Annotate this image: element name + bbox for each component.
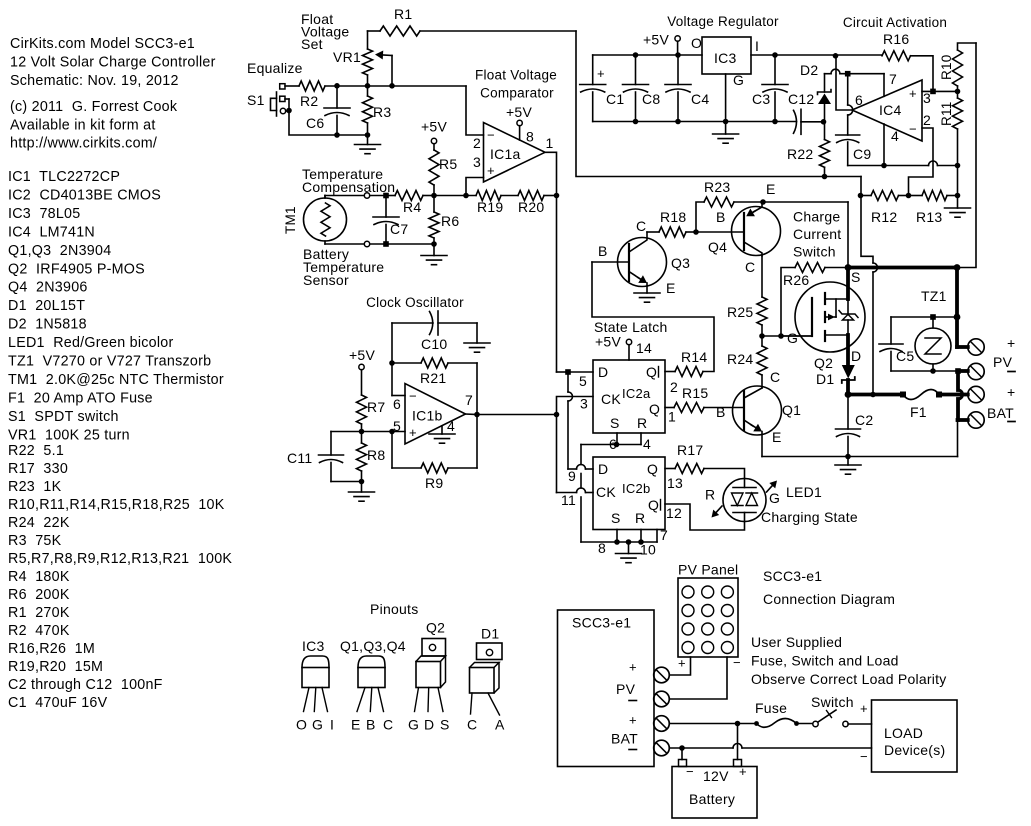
svg-text:C: C [745,259,755,275]
svg-text:IC2 CD4013BE CMOS: IC2 CD4013BE CMOS [8,187,161,203]
wire R14 to Q3 base [592,262,714,372]
12V battery [672,724,757,819]
svg-text:G: G [787,330,798,346]
svg-text:IC4 LM741N: IC4 LM741N [8,224,95,240]
svg-text:R9: R9 [425,475,443,491]
svg-text:R14: R14 [681,349,707,365]
pinout D1 TO-220 [467,626,505,733]
resistor R16 [882,31,933,91]
svg-text:D2: D2 [800,62,818,78]
fuse F1 [900,390,958,421]
svg-text:C: C [770,369,780,385]
svg-text:Fuse, Switch and Load: Fuse, Switch and Load [751,653,899,669]
ground under R6 [421,244,447,265]
terminal PV plus [968,335,1016,355]
svg-text:2: 2 [923,112,931,128]
svg-text:R17: R17 [677,442,703,458]
svg-text:Charging State: Charging State [761,509,858,525]
svg-text:S: S [851,269,861,285]
capacitor C8 [623,55,661,122]
svg-text:IC4: IC4 [879,102,902,118]
+5V pin 8 of IC1a [506,104,534,145]
wire panel plus lead [669,656,690,676]
svg-text:TM1 2.0K@25c NTC Thermistor: TM1 2.0K@25c NTC Thermistor [8,372,224,388]
wire Q-bar 12 to LED1 [665,504,745,530]
svg-text:C: C [383,717,393,733]
capacitor C4 [665,55,709,122]
svg-text:7: 7 [889,71,897,87]
svg-text:Device(s): Device(s) [884,742,945,758]
svg-text:+: + [597,66,605,81]
svg-text:12V: 12V [703,768,729,784]
svg-text:PV: PV [616,681,636,697]
svg-text:Fuse: Fuse [755,700,787,716]
regulator input line [751,52,882,58]
svg-text:6: 6 [393,396,401,412]
svg-text:Switch: Switch [793,244,836,260]
wire IC1a output [545,152,559,372]
svg-text:S: S [611,510,621,526]
svg-text:R19,R20 15M: R19,R20 15M [8,659,103,675]
svg-text:+: + [860,701,868,716]
svg-text:R11: R11 [939,101,954,126]
svg-text:C: C [636,218,646,234]
svg-text:+5V: +5V [595,334,621,350]
transzorb TZ1 [915,288,951,371]
wire BAT minus line [669,744,871,751]
svg-text:Float Voltage: Float Voltage [475,68,557,83]
svg-text:C2 through C12 100nF: C2 through C12 100nF [8,677,163,693]
op-amp IC4 [852,71,931,144]
svg-text:IC3: IC3 [714,50,737,66]
svg-text:C12: C12 [788,91,814,107]
svg-text:R20: R20 [518,199,544,215]
svg-text:TZ1 V7270 or V727 Transzorb: TZ1 V7270 or V727 Transzorb [8,354,211,370]
svg-text:+: + [678,656,686,671]
wire Q2 drain to D1 [846,335,850,365]
capacitor C11 [287,432,362,482]
LOAD box [860,700,957,772]
resistor R17 [665,442,704,474]
svg-text:R3: R3 [373,104,391,120]
svg-text:Q: Q [648,497,659,513]
resistor R2 [299,81,325,109]
terminal BAT minus conn [654,740,670,756]
svg-text:D: D [598,364,608,380]
svg-text:+: + [629,660,637,675]
resistor R4 [395,191,434,216]
+5V pin 14 of IC2a [595,334,632,361]
wire non-inverting input to temp node [463,178,483,199]
svg-text:F1 20 Amp ATO Fuse: F1 20 Amp ATO Fuse [8,390,153,406]
ground under Q3 [634,293,660,302]
svg-text:LED1 Red/Green bicolor: LED1 Red/Green bicolor [8,335,173,351]
svg-text:G: G [408,717,419,733]
svg-text:I: I [330,717,334,733]
svg-text:R: R [637,415,647,431]
svg-text:D2 1N5818: D2 1N5818 [8,317,87,333]
section label Circuit Activation [843,15,947,30]
svg-text:R4 180K: R4 180K [8,569,70,585]
svg-text:Q: Q [646,364,657,380]
svg-text:B: B [366,717,376,733]
label Battery Temperature Sensor [303,246,384,288]
svg-text:R1: R1 [394,6,412,22]
resistor R1 [368,6,577,36]
svg-text:A: A [495,717,505,733]
potentiometer VR1 [363,31,373,86]
resistor R19 [434,191,503,216]
svg-text:+: + [739,764,747,779]
svg-text:D: D [424,717,434,733]
resistor R22 [787,122,830,180]
diode D1 (20L15T) [816,365,855,395]
diode D2 (1N5818) [800,62,831,125]
svg-text:D1: D1 [816,371,834,387]
svg-text:IC2a: IC2a [622,386,651,401]
svg-text:4: 4 [643,436,651,452]
svg-text:IC3: IC3 [302,638,325,654]
resistor R24 [727,336,767,388]
svg-text:R24: R24 [727,351,753,367]
svg-text:S1: S1 [247,92,265,108]
svg-text:14: 14 [636,340,652,356]
svg-text:Q: Q [647,461,658,477]
svg-text:−: − [733,655,741,670]
capacitor C10 [392,311,477,352]
wire Q4 emitter to PV bus [763,202,848,268]
svg-text:Set: Set [301,36,323,52]
transistor Q1 [704,369,801,457]
wire S1 to ground rail [289,111,370,138]
svg-text:Charge: Charge [793,209,840,225]
wire BAT plus line [669,721,759,727]
svg-text:Sensor: Sensor [303,272,349,288]
svg-text:S: S [610,415,620,431]
svg-text:R10,R11,R14,R15,R18,R25 10K: R10,R11,R14,R15,R18,R25 10K [8,497,225,513]
wire non-inverting node [331,429,405,435]
resistor R12 [858,191,912,226]
svg-text:BAT: BAT [611,731,638,747]
terminal BAT plus conn [654,716,670,732]
label SCC3-e1 Connection Diagram [763,568,895,607]
section label Pinouts [370,601,418,617]
capacitor C1 [580,55,625,122]
svg-text:+: + [629,713,637,728]
wire TZ1 C5 top to PV plus [891,314,960,321]
svg-text:−: − [409,389,417,404]
wire Q2 source [846,268,850,300]
resistor R18 [647,209,699,237]
wire PV minus to BAT minus [958,371,963,420]
svg-text:E: E [351,717,361,733]
svg-text:R24 22K: R24 22K [8,515,70,531]
MOSFET Q2 [781,269,865,371]
svg-text:+: + [487,163,495,178]
svg-text:−: − [909,122,917,137]
svg-text:R6 200K: R6 200K [8,587,70,603]
svg-text:11: 11 [561,492,576,508]
svg-text:9: 9 [568,468,576,484]
svg-text:R18: R18 [660,209,686,225]
svg-text:2: 2 [670,379,678,395]
svg-text:R16: R16 [883,31,909,47]
terminal PV minus [958,354,1015,380]
resistor R9 [392,432,477,492]
node BAT plus [845,391,903,398]
svg-text:Available in kit form at: Available in kit form at [10,118,156,134]
ground right of C10 [464,323,490,352]
wire gate drive [762,333,812,339]
wire IC4 pin4 / C9 ground line [848,124,958,168]
wire battery sense to BAT plus [861,177,878,398]
pinout IC3 TO-92 [296,638,334,733]
svg-text:G: G [733,72,744,88]
wire clock to CK inputs [477,397,593,493]
+5V output terminal [643,32,680,56]
svg-text:12 Volt Solar Charge Controlle: 12 Volt Solar Charge Controller [10,55,216,71]
svg-text:+: + [409,425,417,440]
svg-text:−: − [860,749,868,764]
svg-text:R8: R8 [367,447,385,463]
svg-text:Observe Correct Load Polarity: Observe Correct Load Polarity [751,671,947,687]
wire R17 to LED1 [704,469,745,479]
svg-text:O: O [296,717,307,733]
resistor R26 [781,263,848,337]
svg-text:+5V: +5V [643,32,669,48]
svg-text:R19: R19 [477,199,503,215]
svg-text:R4: R4 [403,199,421,215]
capacitor C7 [373,196,408,245]
capacitor C6 [306,86,350,135]
svg-text:4: 4 [891,128,899,144]
svg-text:C1 470uF 16V: C1 470uF 16V [8,695,108,711]
svg-text:Q1,Q3,Q4: Q1,Q3,Q4 [340,638,406,654]
svg-text:F1: F1 [910,404,927,420]
section label State Latch [594,319,668,335]
svg-text:E: E [666,280,676,296]
svg-text:C5: C5 [896,348,914,364]
section label Float Voltage Set [301,11,349,52]
svg-text:CK: CK [601,391,621,407]
svg-text:E: E [766,181,776,197]
resistor R5 [429,150,457,198]
svg-text:TM1: TM1 [283,206,298,234]
svg-text:Pinouts: Pinouts [370,601,418,617]
wire IC4 pin3 node [922,89,960,95]
svg-text:C8: C8 [642,91,660,107]
ground under R3 [355,135,381,154]
svg-text:12: 12 [666,505,682,521]
parts list text [8,169,232,711]
SCC3 controller box [558,610,655,767]
svg-text:D: D [598,461,608,477]
svg-text:IC1b: IC1b [412,408,443,424]
svg-text:−: − [487,128,495,143]
ground line under C2 [762,454,958,460]
switch user supplied [811,694,872,727]
svg-text:Q3: Q3 [671,255,690,271]
svg-text:+: + [909,86,917,101]
svg-text:R21: R21 [420,370,446,386]
svg-text:R22 5.1: R22 5.1 [8,443,64,459]
svg-text:Q2: Q2 [426,620,445,636]
svg-text:R7: R7 [367,399,385,415]
wire inverting input to float node [466,86,484,135]
svg-text:R: R [705,487,715,503]
wire battery sense from R1 [576,31,861,177]
svg-text:R26: R26 [783,272,809,288]
svg-text:CK: CK [596,484,616,500]
svg-text:C9: C9 [853,146,871,162]
svg-text:IC1a: IC1a [490,146,521,162]
svg-text:E: E [772,429,782,445]
svg-text:+5V: +5V [349,347,375,363]
VR1 wiper arrow [333,49,392,86]
svg-text:C10: C10 [421,336,447,352]
ground under IC2b [616,542,642,563]
terminal PV minus conn [654,691,670,707]
node float set line [285,83,466,89]
svg-text:C7: C7 [390,221,408,237]
svg-text:(c) 2011 G. Forrest Cook: (c) 2011 G. Forrest Cook [10,99,178,115]
resistor R11 [939,91,963,168]
svg-text:R22: R22 [787,146,813,162]
op-amp IC1a [473,123,554,183]
svg-text:R25: R25 [727,304,753,320]
fuse user supplied [755,700,813,727]
svg-text:VR1: VR1 [333,49,361,65]
switch S1 Equalize [247,60,303,116]
thermistor TM1 [283,196,347,245]
svg-text:R6: R6 [441,213,459,229]
svg-text:13: 13 [667,475,683,491]
svg-text:S1 SPDT switch: S1 SPDT switch [8,409,119,425]
svg-text:http://www.cirkits.com/: http://www.cirkits.com/ [10,136,157,152]
resistor R8 [357,432,386,485]
svg-text:CirKits.com Model SCC3-e1: CirKits.com Model SCC3-e1 [10,36,195,52]
svg-text:Circuit Activation: Circuit Activation [843,15,947,30]
svg-text:BAT: BAT [987,405,1014,421]
PV bus thick wire [845,264,961,271]
svg-text:+: + [1007,335,1015,351]
svg-text:+5V: +5V [506,104,532,120]
svg-text:R12: R12 [871,209,897,225]
resistor R6 [429,196,459,247]
wire IC4 pin2 to divider [909,128,934,196]
ground pin4 IC1b [429,426,455,443]
svg-text:1: 1 [668,409,676,425]
svg-text:C3: C3 [752,91,770,107]
svg-text:Q1,Q3 2N3904: Q1,Q3 2N3904 [8,243,111,259]
svg-text:R1 270K: R1 270K [8,605,70,621]
svg-text:Comparator: Comparator [480,86,554,101]
svg-text:PV: PV [993,354,1013,370]
svg-text:Clock Oscillator: Clock Oscillator [366,295,464,310]
wire temp node top [325,193,395,199]
resistor R20 [501,191,557,216]
svg-text:R23 1K: R23 1K [8,479,62,495]
terminal BAT minus [958,405,1016,428]
svg-text:R2 470K: R2 470K [8,623,70,639]
svg-text:C: C [467,717,477,733]
terminal BAT plus [958,384,1015,403]
wire BAT minus to ground line [957,420,959,457]
svg-text:B: B [598,243,608,259]
svg-text:IC1 TLC2272CP: IC1 TLC2272CP [8,169,120,185]
svg-text:R10: R10 [939,54,954,80]
svg-text:LED1: LED1 [786,484,822,500]
LED1 bicolor [705,479,858,526]
svg-text:4: 4 [447,418,455,434]
label user supplied [751,634,947,687]
title text block [10,36,216,152]
svg-text:Q: Q [649,401,660,417]
svg-text:D: D [851,348,861,364]
svg-text:−: − [686,764,694,779]
pinout Q1 Q3 Q4 TO-92 [340,638,406,733]
+5V for R5 [421,119,447,151]
section label Temperature Compensation [302,166,395,195]
svg-text:+: + [1007,384,1015,400]
svg-text:VR1 100K 25 turn: VR1 100K 25 turn [8,427,130,443]
resistor R14 [665,349,707,377]
svg-text:LOAD: LOAD [884,725,923,741]
svg-text:User Supplied: User Supplied [751,634,842,650]
svg-text:S: S [440,717,450,733]
+5V rail [593,52,702,58]
svg-text:Q2 IRF4905 P-MOS: Q2 IRF4905 P-MOS [8,261,145,277]
wire R11 R13 junction [957,166,959,196]
resistor R10 [939,43,976,91]
svg-text:R13: R13 [916,209,942,225]
svg-text:R23: R23 [704,179,730,195]
svg-text:6: 6 [855,92,863,108]
wire inverting node IC1b [392,323,405,396]
svg-text:5: 5 [579,373,587,389]
svg-text:Voltage Regulator: Voltage Regulator [667,14,779,29]
svg-text:D1 20L15T: D1 20L15T [8,298,85,314]
svg-text:R5: R5 [439,156,457,172]
wire D2 to IC4 pin7 [825,69,885,96]
svg-text:3: 3 [473,154,481,170]
wire temp node bottom [325,196,434,247]
wire TZ1 C5 bottom to PV minus [891,368,961,374]
transistor Q3 [592,218,690,296]
regulator IC3 [691,35,759,88]
svg-text:1: 1 [546,135,554,151]
svg-text:C6: C6 [306,115,324,131]
svg-text:I: I [755,38,759,54]
wire panel minus lead [669,655,741,699]
svg-text:Compensation: Compensation [302,179,395,195]
svg-text:C11: C11 [287,450,312,466]
ground under R13 [945,196,971,218]
capacitor C12 [788,91,824,134]
svg-text:IC2b: IC2b [622,481,650,496]
svg-text:B: B [716,404,726,420]
resistor R7 [357,370,386,435]
svg-text:C2: C2 [855,412,873,428]
section label Float Voltage Comparator [475,68,557,101]
resistor R13 [909,191,961,226]
svg-text:TZ1: TZ1 [921,288,947,304]
svg-text:R5,R7,R8,R9,R12,R13,R21 100K: R5,R7,R8,R9,R12,R13,R21 100K [8,551,232,567]
section label Clock Oscillator [366,295,464,310]
svg-text:Connection Diagram: Connection Diagram [763,591,895,607]
svg-text:R3 75K: R3 75K [8,533,62,549]
wire comparator output to D inputs [557,369,594,469]
